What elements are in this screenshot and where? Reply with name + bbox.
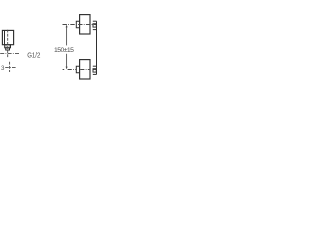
bottom union pipe stub square [93,69,96,72]
top union flange bottom line [93,29,97,31]
top union nut [76,21,79,28]
vertical dashed centerline (left view) [7,30,9,58]
svg-text:G1/2: G1/2 [27,53,40,60]
lower connection cross vertical dashed [9,62,11,72]
dimension arrow down [66,67,68,70]
union body (front view, left) [2,30,13,44]
flange inner edge line (left view) [4,30,6,44]
background [0,0,100,100]
bottom union flange bottom line [93,73,97,75]
top union body (side view, right) [80,15,90,34]
dimension line upper segment [66,26,68,46]
bottom union centerline dash-dot [63,69,97,71]
wall line [96,21,98,74]
nut facet line right [8,45,10,48]
horizontal dash-dot centerline through inlet (left view) [0,53,20,55]
svg-text:3: 3 [1,65,5,72]
dimension arrow up [66,25,68,28]
bottom union flange top line [93,65,97,67]
bottom union nut [76,66,79,73]
dimension line lower segment [66,54,68,69]
pipe stub (left view) [6,48,10,50]
top union centerline dash-dot [63,24,97,26]
lower connection cross horizontal dash-dot [5,67,16,69]
svg-text:150±15: 150±15 [54,47,74,54]
bottom union body (side view, right) [80,60,90,79]
nut (left view) [5,45,11,48]
nut facet line left [5,45,7,48]
top union flange top line [93,20,97,22]
top union pipe stub square [93,24,96,27]
